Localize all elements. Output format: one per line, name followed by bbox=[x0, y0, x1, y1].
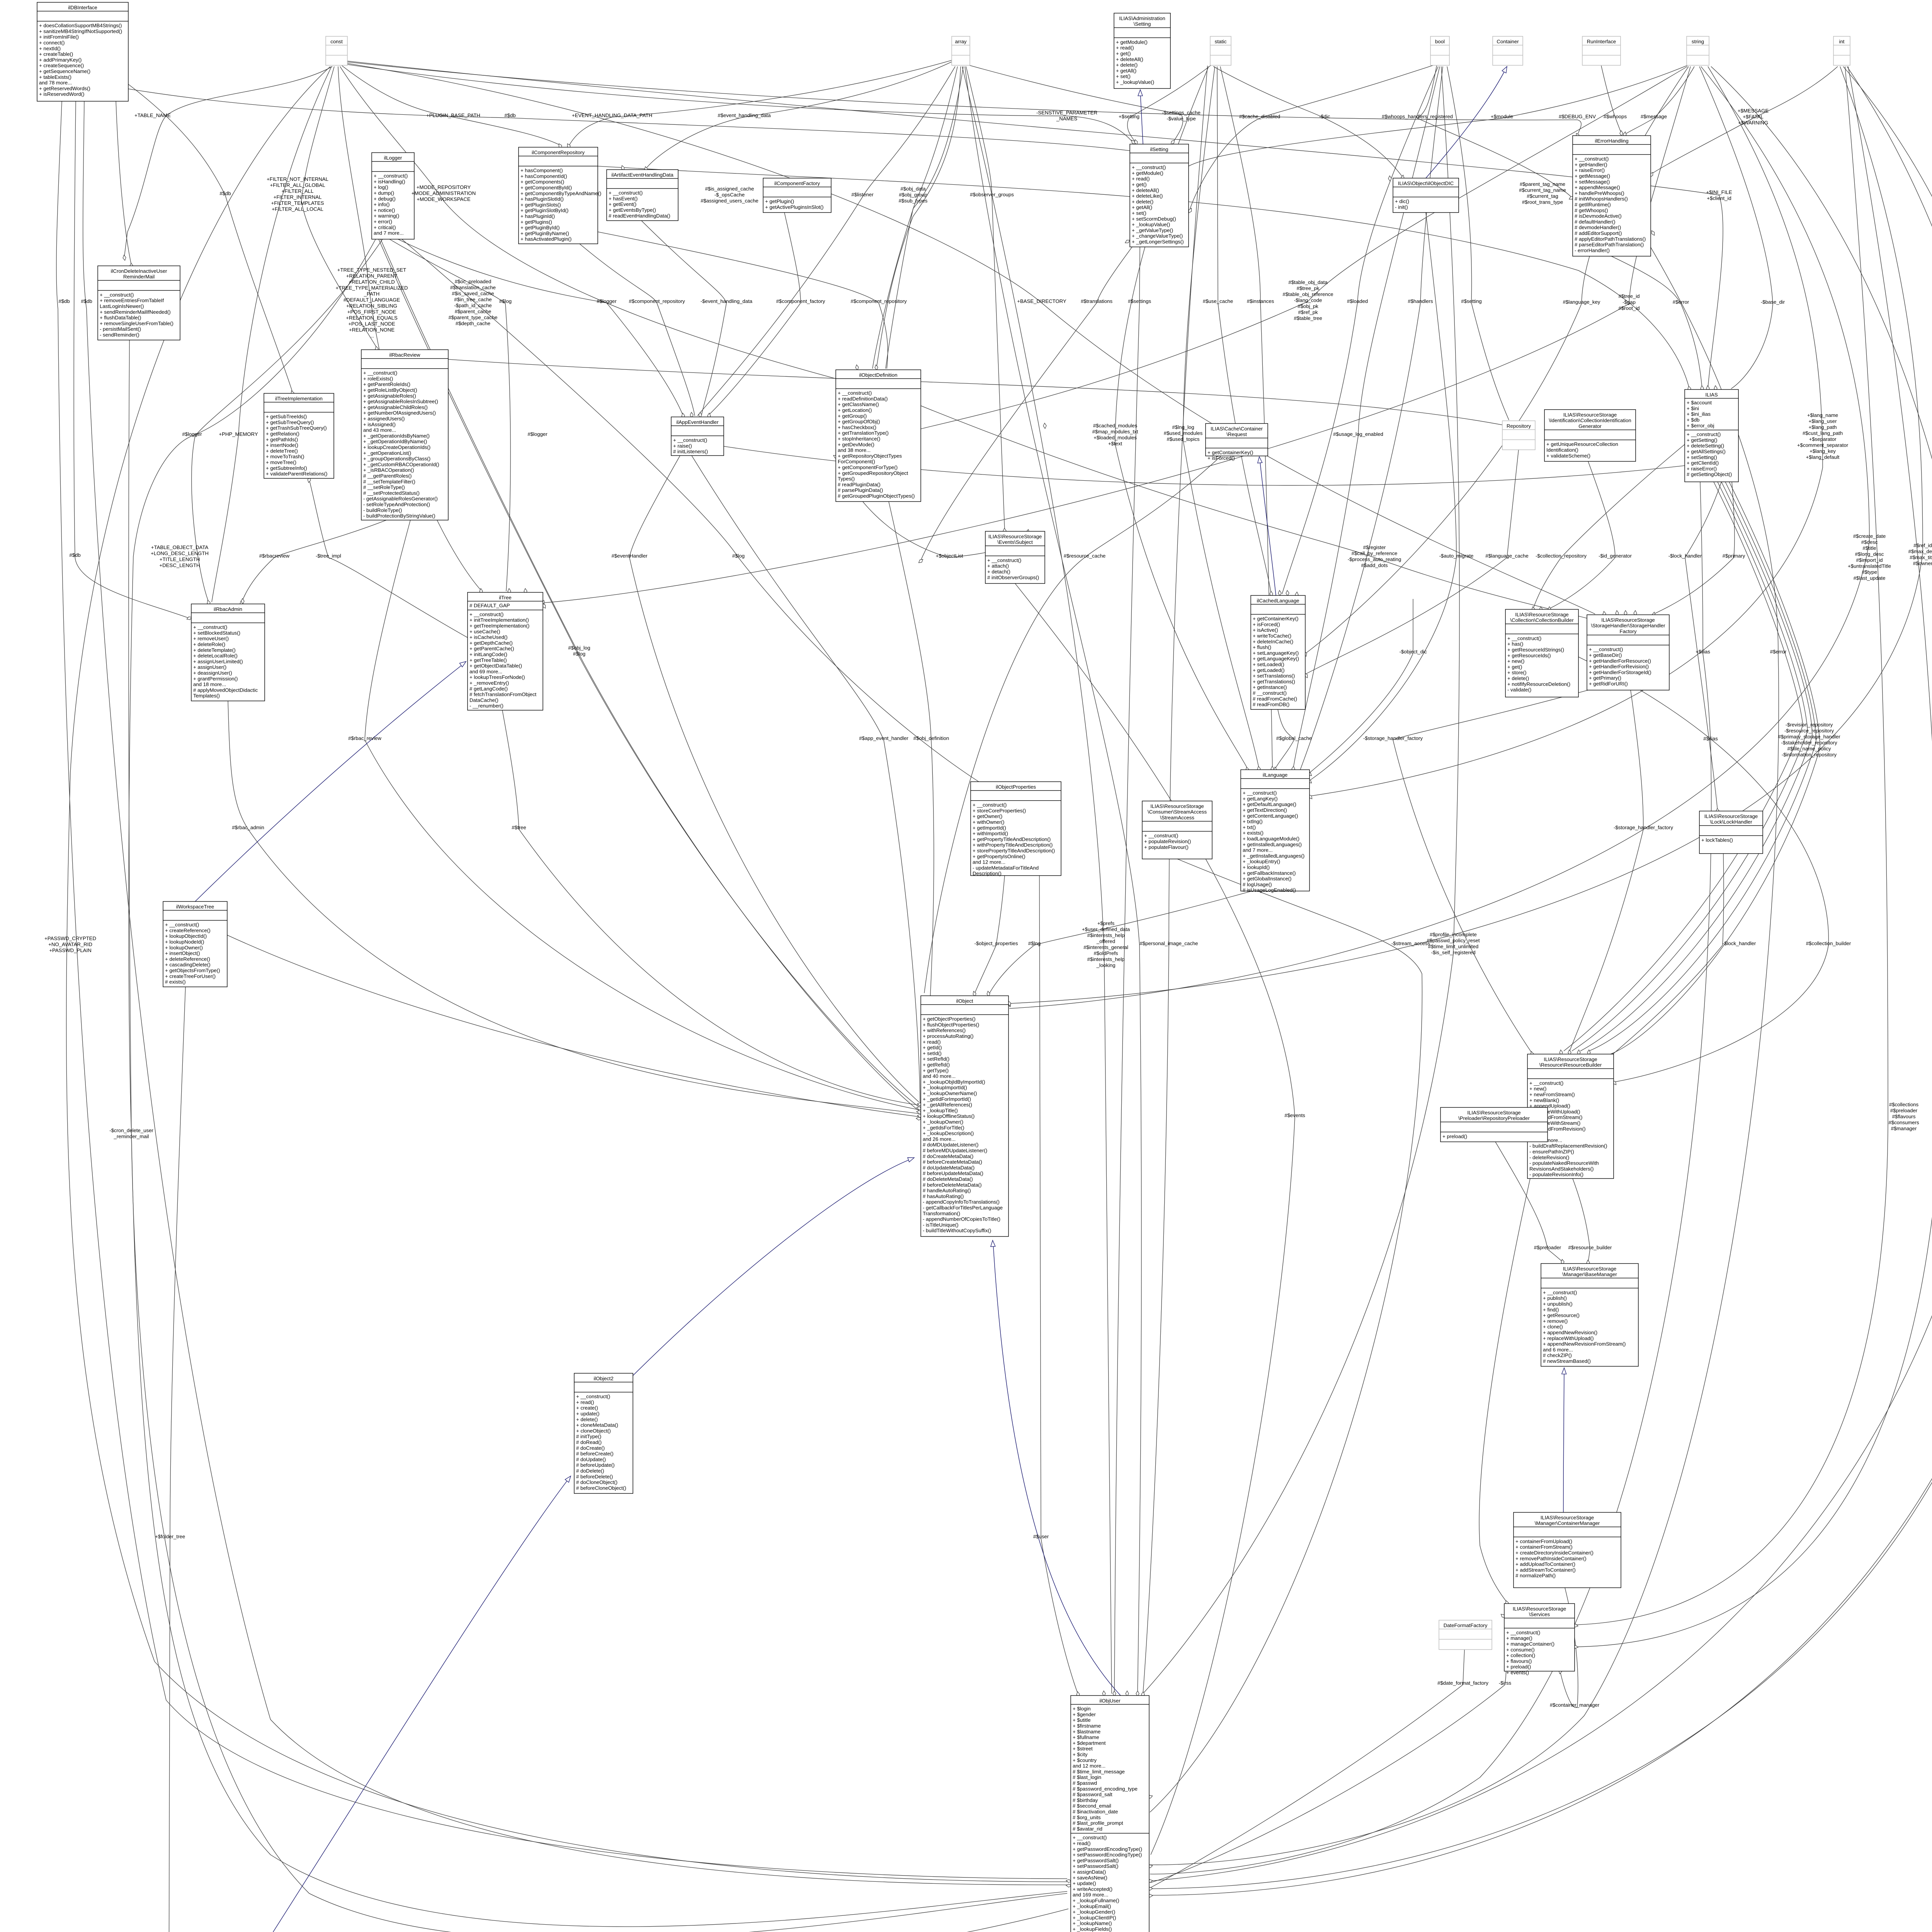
wire bbox=[1306, 66, 1689, 653]
svg-text:+$client_id: +$client_id bbox=[1707, 196, 1731, 201]
wire bbox=[633, 1158, 913, 1376]
wire bbox=[1217, 66, 1271, 594]
svg-text:+ getPropertyTitleAndDescripti: + getPropertyTitleAndDescription() bbox=[973, 836, 1051, 842]
wire bbox=[1589, 482, 1816, 1051]
svg-text:+ preload(): + preload() bbox=[1506, 1664, 1531, 1670]
svg-text:+ addPrimaryKey(): + addPrimaryKey() bbox=[39, 57, 82, 63]
svg-text:+ cascadingDelete(): + cascadingDelete() bbox=[165, 962, 211, 968]
svg-text:RunInterface: RunInterface bbox=[1587, 39, 1616, 44]
svg-text:ReminderMail: ReminderMail bbox=[123, 274, 155, 280]
svg-text:+ setTranslations(): + setTranslations() bbox=[1253, 673, 1295, 679]
wire bbox=[56, 101, 1067, 1879]
svg-text:+DESC_LENGTH: +DESC_LENGTH bbox=[159, 563, 200, 568]
svg-text:+ getPlugins(): + getPlugins() bbox=[520, 219, 552, 225]
svg-text:+ setId(): + setId() bbox=[923, 1050, 942, 1056]
svg-text:_reminder_mail: _reminder_mail bbox=[114, 1134, 149, 1139]
wire bbox=[924, 456, 1221, 993]
svg-text:-$stakeholder_repository: -$stakeholder_repository bbox=[1781, 740, 1837, 746]
svg-text:+ getPluginByName(): + getPluginByName() bbox=[520, 230, 569, 236]
wire bbox=[1563, 1369, 1564, 1512]
wire bbox=[195, 663, 464, 901]
svg-text:#$current_tag: #$current_tag bbox=[1527, 193, 1558, 199]
svg-text:+ moveToTrash(): + moveToTrash() bbox=[266, 454, 304, 459]
svg-text:+PASSWD_PLAIN: +PASSWD_PLAIN bbox=[49, 947, 91, 953]
svg-text:ILIAS\ResourceStorage: ILIAS\ResourceStorage bbox=[1704, 813, 1758, 819]
svg-text:#$handlers: #$handlers bbox=[1408, 298, 1433, 304]
svg-text:+ debug(): + debug() bbox=[374, 196, 396, 202]
svg-text:+ setMessage(): + setMessage() bbox=[1575, 179, 1610, 185]
svg-text:+ deleteAll(): + deleteAll() bbox=[1132, 187, 1159, 193]
svg-text:ilRbacReview: ilRbacReview bbox=[389, 352, 420, 358]
svg-text:+$lang_key: +$lang_key bbox=[1810, 448, 1836, 454]
wire bbox=[629, 456, 919, 1102]
wire bbox=[580, 244, 695, 416]
wire bbox=[379, 239, 920, 1107]
svg-text:#$parent_tag_name: #$parent_tag_name bbox=[1520, 181, 1565, 187]
svg-text:+ txt(): + txt() bbox=[1243, 824, 1256, 830]
svg-text:+ hasComponentId(): + hasComponentId() bbox=[520, 173, 567, 179]
wire bbox=[646, 62, 952, 168]
svg-text:-SENSTIVE_PARAMETER: -SENSTIVE_PARAMETER bbox=[1036, 110, 1097, 116]
wire bbox=[1533, 444, 1685, 609]
svg-text:+ getGlobalInstance(): + getGlobalInstance() bbox=[1243, 876, 1291, 882]
wire bbox=[966, 66, 1005, 530]
wire bbox=[1300, 66, 1443, 770]
svg-text:ilCachedLanguage: ilCachedLanguage bbox=[1257, 598, 1299, 604]
class ilArtifactEventHandlingData bbox=[607, 170, 678, 221]
svg-text:Templates(): Templates() bbox=[193, 693, 220, 699]
svg-text:+$user_defined_data: +$user_defined_data bbox=[1082, 927, 1130, 932]
svg-text:and 7 more...: and 7 more... bbox=[374, 230, 404, 236]
svg-text:+ read(): + read() bbox=[923, 1039, 941, 1045]
svg-text:+ getPluginSlotById(): + getPluginSlotById() bbox=[520, 207, 568, 213]
class ilComponentRepository bbox=[519, 147, 601, 244]
svg-text:+ removeSingleUserFromTable(): + removeSingleUserFromTable() bbox=[100, 320, 173, 326]
svg-text:+ __construct(): + __construct() bbox=[1506, 1629, 1540, 1635]
svg-text:+ $street: + $street bbox=[1073, 1746, 1093, 1752]
svg-text:+ __construct(): + __construct() bbox=[1589, 646, 1623, 652]
svg-text:+ getSubTreeIds(): + getSubTreeIds() bbox=[266, 414, 307, 420]
svg-text:-$_opsCache: -$_opsCache bbox=[714, 192, 745, 198]
svg-text:+ setSetting(): + setSetting() bbox=[1687, 454, 1717, 460]
wire bbox=[228, 701, 919, 1114]
svg-text:and 7 more...: and 7 more... bbox=[1243, 847, 1273, 853]
wire bbox=[886, 66, 963, 369]
svg-text:string: string bbox=[1692, 39, 1704, 44]
svg-text:#$assigned_users_cache: #$assigned_users_cache bbox=[701, 198, 759, 204]
svg-text:+ _lookupEntry(): + _lookupEntry() bbox=[1243, 859, 1280, 864]
svg-text:- populateNakedResourceWith: - populateNakedResourceWith bbox=[1529, 1160, 1599, 1166]
class ILIAS\ResourceStorage bbox=[1514, 1512, 1621, 1588]
svg-text:Generator: Generator bbox=[1578, 423, 1602, 429]
svg-text:+ containerFromStream(): + containerFromStream() bbox=[1515, 1544, 1573, 1550]
svg-text:#$rbac_admin: #$rbac_admin bbox=[232, 825, 264, 830]
wire bbox=[872, 66, 957, 369]
svg-text:+ _lookupObjIdByImportId(): + _lookupObjIdByImportId() bbox=[923, 1079, 985, 1085]
svg-text:- deleteRevision(): - deleteRevision() bbox=[1529, 1155, 1569, 1160]
svg-text:Transformation(): Transformation() bbox=[923, 1211, 960, 1216]
svg-text:\Preloader\RepositoryPreloader: \Preloader\RepositoryPreloader bbox=[1458, 1116, 1530, 1121]
svg-text:+ hasPluginSlotId(): + hasPluginSlotId() bbox=[520, 196, 564, 202]
svg-text:+POS_FIRST_NODE: +POS_FIRST_NODE bbox=[347, 309, 396, 315]
svg-text:+ deleteLike(): + deleteLike() bbox=[1132, 193, 1163, 199]
svg-text:\Resource\ResourceBuilder: \Resource\ResourceBuilder bbox=[1539, 1062, 1602, 1068]
svg-text:+ populateRevision(): + populateRevision() bbox=[1144, 838, 1191, 844]
svg-text:ILIAS\Administration: ILIAS\Administration bbox=[1119, 15, 1165, 21]
svg-text:-$object_properties: -$object_properties bbox=[975, 940, 1018, 946]
wire bbox=[128, 84, 293, 392]
wire bbox=[389, 239, 510, 591]
wire bbox=[1575, 66, 1888, 1625]
svg-text:ilTree: ilTree bbox=[499, 595, 512, 600]
svg-text:#$title: #$title bbox=[1862, 545, 1876, 551]
wire bbox=[124, 66, 332, 256]
svg-text:# __setProtectedStatus(): # __setProtectedStatus() bbox=[363, 490, 420, 496]
wire bbox=[1114, 247, 1140, 1694]
svg-text:+ getObjectsFromType(): + getObjectsFromType() bbox=[165, 968, 220, 973]
svg-text:+ _lookupOwnerName(): + _lookupOwnerName() bbox=[923, 1090, 977, 1096]
svg-text:+ handlePreWhoops(): + handlePreWhoops() bbox=[1575, 190, 1624, 196]
wire bbox=[338, 66, 481, 590]
svg-text:#$listener: #$listener bbox=[851, 192, 874, 197]
svg-text:+ txtlng(): + txtlng() bbox=[1243, 819, 1263, 825]
svg-text:+ useCache(): + useCache() bbox=[469, 629, 500, 634]
svg-text:+ _lookupFields(): + _lookupFields() bbox=[1073, 1926, 1112, 1932]
svg-text:#$logger: #$logger bbox=[597, 298, 617, 304]
svg-text:# getWhoops(): # getWhoops() bbox=[1575, 207, 1608, 213]
svg-text:#$register: #$register bbox=[1363, 544, 1386, 550]
wire bbox=[598, 166, 1689, 389]
svg-text:- sendReminder(): - sendReminder() bbox=[100, 332, 139, 338]
svg-text:+TREE_TYPE_NESTED_SET: +TREE_TYPE_NESTED_SET bbox=[337, 267, 406, 273]
svg-text:+ info(): + info() bbox=[374, 202, 389, 207]
wire bbox=[241, 520, 386, 603]
wire bbox=[889, 502, 934, 1106]
svg-text:+ set(): + set() bbox=[1132, 210, 1146, 216]
wire bbox=[1447, 66, 1509, 420]
svg-text:#$passwd_policy_reset: #$passwd_policy_reset bbox=[1427, 938, 1480, 944]
svg-text:#$logger: #$logger bbox=[527, 431, 548, 437]
svg-text:+$text: +$text bbox=[1108, 441, 1122, 447]
svg-text:+ getComponentForType(): + getComponentForType() bbox=[838, 464, 898, 470]
svg-text:#$ref_pk: #$ref_pk bbox=[1298, 310, 1318, 315]
svg-text:+ getType(): + getType() bbox=[923, 1068, 949, 1073]
wire bbox=[398, 239, 683, 416]
wire bbox=[1143, 66, 1207, 1694]
wire bbox=[365, 520, 919, 1110]
svg-text:Types(): Types() bbox=[838, 476, 855, 482]
svg-text:+ _lookupValue(): + _lookupValue() bbox=[1116, 79, 1154, 85]
svg-text:-$irss: -$irss bbox=[1499, 1680, 1512, 1686]
svg-text:+ __construct(): + __construct() bbox=[1575, 156, 1609, 162]
svg-text:+ __construct(): + __construct() bbox=[469, 611, 503, 617]
svg-text:#$current_tag_name: #$current_tag_name bbox=[1519, 187, 1566, 193]
wire bbox=[192, 239, 383, 602]
svg-text:-$cron_delete_user: -$cron_delete_user bbox=[109, 1128, 153, 1133]
wire bbox=[309, 479, 468, 638]
svg-text:+ getMessage(): + getMessage() bbox=[1575, 173, 1610, 179]
svg-text:+ _lookupGender(): + _lookupGender() bbox=[1073, 1909, 1115, 1915]
svg-text:+ new(): + new() bbox=[1507, 658, 1524, 664]
svg-text:+$WARNING: +$WARNING bbox=[1738, 120, 1768, 126]
svg-text:+ getGroupedRepositoryObject: + getGroupedRepositoryObject bbox=[838, 470, 908, 476]
svg-text:+ remove(): + remove() bbox=[1543, 1318, 1568, 1324]
svg-text:+ events(): + events() bbox=[1506, 1670, 1529, 1675]
svg-text:\Collection\CollectionBuilder: \Collection\CollectionBuilder bbox=[1510, 617, 1574, 623]
svg-text:# initListeners(): # initListeners() bbox=[673, 449, 708, 454]
svg-text:ILIAS\ResourceStorage: ILIAS\ResourceStorage bbox=[1467, 1110, 1521, 1116]
class Repository bbox=[1502, 421, 1535, 450]
svg-text:LastLoginIsNewer(): LastLoginIsNewer() bbox=[100, 303, 144, 309]
svg-text:\Identification\CollectionIden: \Identification\CollectionIdentification bbox=[1549, 418, 1631, 423]
svg-text:+ setPasswordEncodingType(): + setPasswordEncodingType() bbox=[1073, 1852, 1142, 1858]
wire bbox=[129, 239, 1067, 1927]
svg-text:\Lock\LockHandler: \Lock\LockHandler bbox=[1710, 819, 1752, 825]
wire bbox=[1310, 599, 1413, 773]
svg-text:# $time_limit_message: # $time_limit_message bbox=[1073, 1769, 1125, 1774]
wire bbox=[724, 446, 1685, 485]
svg-text:- buildDraftReplacementRevisio: - buildDraftReplacementRevision() bbox=[1529, 1143, 1607, 1149]
svg-text:#$app_event_handler: #$app_event_handler bbox=[859, 735, 908, 741]
svg-text:+ __construct(): + __construct() bbox=[973, 802, 1007, 808]
svg-text:+ _lookupEmail(): + _lookupEmail() bbox=[1073, 1903, 1111, 1909]
svg-text:# doUpdateMetaData(): # doUpdateMetaData() bbox=[923, 1165, 975, 1170]
svg-text:+ publish(): + publish() bbox=[1543, 1295, 1567, 1301]
svg-text:+ getPropertyIsOnline(): + getPropertyIsOnline() bbox=[973, 854, 1026, 859]
svg-text:ILIAS\ResourceStorage: ILIAS\ResourceStorage bbox=[1150, 803, 1204, 809]
wire bbox=[340, 66, 836, 379]
svg-text:#$language_cache: #$language_cache bbox=[1485, 553, 1528, 559]
svg-text:+ getResource(): + getResource() bbox=[1543, 1313, 1580, 1318]
svg-text:+ delete(): + delete() bbox=[1116, 62, 1138, 68]
svg-text:# hasAutoRating(): # hasAutoRating() bbox=[923, 1193, 964, 1199]
svg-text:+ getLocation(): + getLocation() bbox=[838, 407, 872, 413]
wire bbox=[502, 710, 919, 1105]
svg-text:#$primary_storage_handler: #$primary_storage_handler bbox=[1778, 734, 1840, 740]
svg-text:bool: bool bbox=[1435, 39, 1445, 44]
class DateFormatFactory bbox=[1439, 1620, 1492, 1650]
svg-text:+ store(): + store() bbox=[1507, 670, 1526, 675]
svg-text:+ __construct(): + __construct() bbox=[1507, 635, 1541, 641]
svg-text:+ getOwner(): + getOwner() bbox=[973, 813, 1002, 819]
svg-text:+ getAllSettings(): + getAllSettings() bbox=[1687, 449, 1726, 454]
svg-text:+ __construct(): + __construct() bbox=[100, 292, 134, 298]
svg-text:#$log: #$log bbox=[732, 553, 745, 559]
svg-text:+ has(): + has() bbox=[1507, 641, 1523, 647]
svg-text:#$lng_log: #$lng_log bbox=[1172, 424, 1194, 430]
svg-text:#$preloader: #$preloader bbox=[1534, 1245, 1561, 1250]
svg-text:# doDelete(): # doDelete() bbox=[576, 1468, 604, 1474]
wire bbox=[921, 406, 1587, 618]
wire bbox=[1305, 450, 1519, 674]
wire bbox=[301, 66, 377, 348]
svg-text:#$date_format_factory: #$date_format_factory bbox=[1437, 1680, 1488, 1686]
svg-text:+ raise(): + raise() bbox=[673, 443, 692, 449]
svg-text:+ __construct(): + __construct() bbox=[1687, 432, 1721, 437]
svg-text:# readEventHandlingData(): # readEventHandlingData() bbox=[609, 213, 670, 219]
svg-text:#$cust_lang_path: #$cust_lang_path bbox=[1803, 430, 1843, 436]
svg-text:+$ilias: +$ilias bbox=[1696, 649, 1710, 655]
svg-text:#$use_cache: #$use_cache bbox=[1203, 298, 1233, 304]
svg-text:#$obj_log: #$obj_log bbox=[568, 645, 590, 651]
svg-text:+ sendReminderMailIfNeeded(): + sendReminderMailIfNeeded() bbox=[100, 309, 171, 315]
svg-text:- errorHandler(): - errorHandler() bbox=[1575, 247, 1610, 253]
svg-text:+ find(): + find() bbox=[1543, 1307, 1559, 1313]
svg-text:+ $ini_ilias: + $ini_ilias bbox=[1687, 411, 1711, 417]
svg-text:+ _lookupFullname(): + _lookupFullname() bbox=[1073, 1898, 1119, 1903]
svg-text:#$parent_type_cache: #$parent_type_cache bbox=[449, 315, 498, 320]
wire bbox=[965, 66, 1141, 1694]
svg-text:+ getTrashSubTreeQuery(): + getTrashSubTreeQuery() bbox=[266, 425, 327, 431]
wire bbox=[1213, 66, 1403, 177]
svg-text:+ _groupOperationsByClass(): + _groupOperationsByClass() bbox=[363, 456, 430, 462]
wire bbox=[993, 1242, 1121, 1696]
wire bbox=[345, 64, 1133, 143]
svg-text:+ clone(): + clone() bbox=[1543, 1324, 1563, 1330]
svg-text:+ removeUser(): + removeUser() bbox=[193, 636, 229, 641]
svg-text:+ tableExists(): + tableExists() bbox=[39, 74, 71, 80]
svg-text:#$interests_help: #$interests_help bbox=[1087, 932, 1125, 938]
svg-text:+BASE_DIRECTORY: +BASE_DIRECTORY bbox=[1017, 298, 1066, 304]
svg-text:#$interests_general: #$interests_general bbox=[1083, 944, 1128, 950]
svg-text:+ removePathInsideContainer(): + removePathInsideContainer() bbox=[1515, 1556, 1587, 1561]
svg-text:+ createDirectoryInsideContain: + createDirectoryInsideContainer() bbox=[1515, 1550, 1594, 1556]
wire bbox=[1015, 583, 1295, 1855]
svg-text:#$setting: #$setting bbox=[1461, 298, 1482, 304]
svg-text:+$prefs: +$prefs bbox=[1097, 920, 1115, 926]
svg-text:+ getPasswordSalt(): + getPasswordSalt() bbox=[1073, 1857, 1119, 1863]
svg-text:#$profile_incomplete: #$profile_incomplete bbox=[1430, 932, 1477, 937]
wire bbox=[1039, 876, 1078, 1694]
svg-text:+ $utitle: + $utitle bbox=[1073, 1717, 1091, 1723]
svg-text:+$loaded_modules: +$loaded_modules bbox=[1094, 435, 1137, 440]
svg-text:+ getDefaultLanguage(): + getDefaultLanguage() bbox=[1243, 801, 1296, 807]
svg-text:#$is_saved_cache: #$is_saved_cache bbox=[452, 291, 494, 296]
svg-text:+ getGroup(): + getGroup() bbox=[838, 413, 867, 419]
wire bbox=[921, 66, 1687, 429]
svg-text:# getIlRuntime(): # getIlRuntime() bbox=[1575, 202, 1611, 207]
svg-text:+ getResourceIdStrings(): + getResourceIdStrings() bbox=[1507, 647, 1564, 653]
svg-text:# __setRoleType(): # __setRoleType() bbox=[363, 485, 405, 490]
svg-text:# getGroupedPluginObjectTypes(: # getGroupedPluginObjectTypes() bbox=[838, 493, 915, 499]
wire bbox=[1115, 66, 1247, 768]
svg-text:+ delete(): + delete() bbox=[1507, 675, 1529, 681]
svg-text:+ preload(): + preload() bbox=[1442, 1133, 1467, 1139]
svg-text:ilSetting: ilSetting bbox=[1150, 146, 1168, 152]
svg-text:#$tree_id: #$tree_id bbox=[1619, 293, 1640, 299]
class int bbox=[1833, 36, 1850, 65]
class bool bbox=[1430, 36, 1449, 65]
svg-text:Identification(): Identification() bbox=[1546, 447, 1578, 453]
svg-text:+ stopInheritance(): + stopInheritance() bbox=[838, 436, 880, 442]
svg-text:+ replaceWithUpload(): + replaceWithUpload() bbox=[1543, 1335, 1594, 1341]
svg-text:#$primary: #$primary bbox=[1723, 553, 1745, 559]
svg-text:+ getPrimary(): + getPrimary() bbox=[1589, 675, 1621, 681]
svg-text:ILIAS\ResourceStorage: ILIAS\ResourceStorage bbox=[1601, 617, 1655, 623]
svg-text:+ __construct(): + __construct() bbox=[1132, 165, 1166, 170]
wire bbox=[1128, 65, 1211, 143]
svg-text:+ getPlugin(): + getPlugin() bbox=[765, 199, 794, 204]
svg-text:+$setting: +$setting bbox=[1119, 114, 1139, 119]
wire bbox=[544, 66, 1690, 603]
svg-text:+ lookupNodeId(): + lookupNodeId() bbox=[165, 939, 204, 945]
svg-text:-$collection_repository: -$collection_repository bbox=[1536, 553, 1587, 559]
svg-text:#$import_id: #$import_id bbox=[1856, 557, 1883, 563]
svg-text:ilComponentRepository: ilComponentRepository bbox=[532, 150, 585, 155]
svg-text:+ getRelation(): + getRelation() bbox=[266, 431, 299, 437]
class ilDBInterface bbox=[37, 2, 128, 101]
svg-text:+PHP_MEMORY: +PHP_MEMORY bbox=[219, 431, 258, 437]
svg-text:+ log(): + log() bbox=[374, 184, 388, 190]
svg-text:ilErrorHandling: ilErrorHandling bbox=[1595, 138, 1628, 144]
svg-text:+NO_AVATAR_RID: +NO_AVATAR_RID bbox=[48, 942, 92, 947]
svg-text:and 69 more...: and 69 more... bbox=[469, 668, 502, 674]
svg-text:# beforeCreate(): # beforeCreate() bbox=[576, 1451, 614, 1457]
svg-text:+ isCacheUsed(): + isCacheUsed() bbox=[469, 634, 508, 640]
class ilObject bbox=[921, 996, 1009, 1236]
svg-text:const: const bbox=[330, 39, 343, 44]
svg-text:-$revision_repository: -$revision_repository bbox=[1786, 722, 1833, 728]
svg-text:+ dic(): + dic() bbox=[1395, 199, 1409, 204]
svg-text:- getCallbackForTitlesPerLangu: - getCallbackForTitlesPerLanguage bbox=[923, 1205, 1003, 1211]
svg-text:+ insertNode(): + insertNode() bbox=[266, 442, 298, 448]
svg-text:...: ... bbox=[370, 333, 374, 339]
svg-text:# isUsageLogEnabled(): # isUsageLogEnabled() bbox=[1243, 887, 1296, 893]
svg-text:+MODE_WORKSPACE: +MODE_WORKSPACE bbox=[417, 196, 471, 202]
svg-text:+ initFromIniFile(): + initFromIniFile() bbox=[39, 34, 79, 40]
svg-text:#$max_desc: #$max_desc bbox=[1908, 549, 1932, 554]
wire bbox=[1564, 482, 1803, 1051]
svg-text:DataCache(): DataCache() bbox=[469, 697, 498, 703]
svg-text:+ lookupObjectId(): + lookupObjectId() bbox=[165, 933, 207, 939]
svg-text:+POS_LAST_NODE: +POS_LAST_NODE bbox=[348, 321, 395, 327]
svg-text:ilObject: ilObject bbox=[956, 998, 973, 1004]
svg-text:- validate(): - validate() bbox=[1507, 687, 1531, 693]
svg-text:+ getUniqueResourceCollection: + getUniqueResourceCollection bbox=[1546, 441, 1618, 447]
svg-text:#$error: #$error bbox=[1770, 649, 1787, 655]
svg-text:+$separator: +$separator bbox=[1809, 436, 1837, 442]
svg-text:# parseEditorPathTranslation(): # parseEditorPathTranslation() bbox=[1575, 242, 1644, 248]
svg-text:static: static bbox=[1215, 39, 1227, 44]
svg-text:+ newBlank(): + newBlank() bbox=[1529, 1097, 1559, 1103]
svg-text:+TREE_TYPE_MATERIALIZED: +TREE_TYPE_MATERIALIZED bbox=[336, 285, 408, 291]
svg-text:ilRbacAdmin: ilRbacAdmin bbox=[214, 606, 242, 612]
svg-text:#$is_assigned_cache: #$is_assigned_cache bbox=[705, 186, 754, 192]
svg-text:# __setTemplateFilter(): # __setTemplateFilter() bbox=[363, 479, 415, 485]
svg-text:+MODE_ADMINISTRATION: +MODE_ADMINISTRATION bbox=[412, 190, 476, 196]
svg-text:#$call_by_reference: #$call_by_reference bbox=[1352, 551, 1398, 556]
svg-text:+ getObjectDataTable(): + getObjectDataTable() bbox=[469, 663, 522, 669]
wire bbox=[1685, 482, 1721, 810]
svg-text:+ error(): + error() bbox=[374, 219, 392, 224]
class ilTreeImplementation bbox=[264, 393, 334, 478]
svg-text:+ getComponents(): + getComponents() bbox=[520, 179, 564, 185]
svg-text:# handleAutoRating(): # handleAutoRating() bbox=[923, 1188, 971, 1194]
svg-text:+ connect(): + connect() bbox=[39, 40, 65, 46]
class ILIAS\Object\ilObjectDIC bbox=[1393, 178, 1459, 213]
svg-text:+ getRepositoryObjectTypes: + getRepositoryObjectTypes bbox=[838, 453, 902, 459]
svg-text:+ hasCheckbox(): + hasCheckbox() bbox=[838, 424, 876, 430]
svg-text:+TABLE_OBJECT_DATA: +TABLE_OBJECT_DATA bbox=[151, 544, 209, 550]
svg-text:+$INI_FILE: +$INI_FILE bbox=[1706, 189, 1732, 195]
svg-text:array: array bbox=[955, 39, 966, 44]
svg-text:+ delete(): + delete() bbox=[1132, 199, 1153, 204]
svg-text:+$FATAL: +$FATAL bbox=[1743, 114, 1763, 120]
svg-text:+ getModule(): + getModule() bbox=[1116, 39, 1148, 45]
svg-text:+ _lookupClientIP(): + _lookupClientIP() bbox=[1073, 1915, 1116, 1920]
svg-text:# $last_profile_prompt: # $last_profile_prompt bbox=[1073, 1820, 1123, 1826]
svg-text:+ setPasswordSalt(): + setPasswordSalt() bbox=[1073, 1863, 1118, 1869]
